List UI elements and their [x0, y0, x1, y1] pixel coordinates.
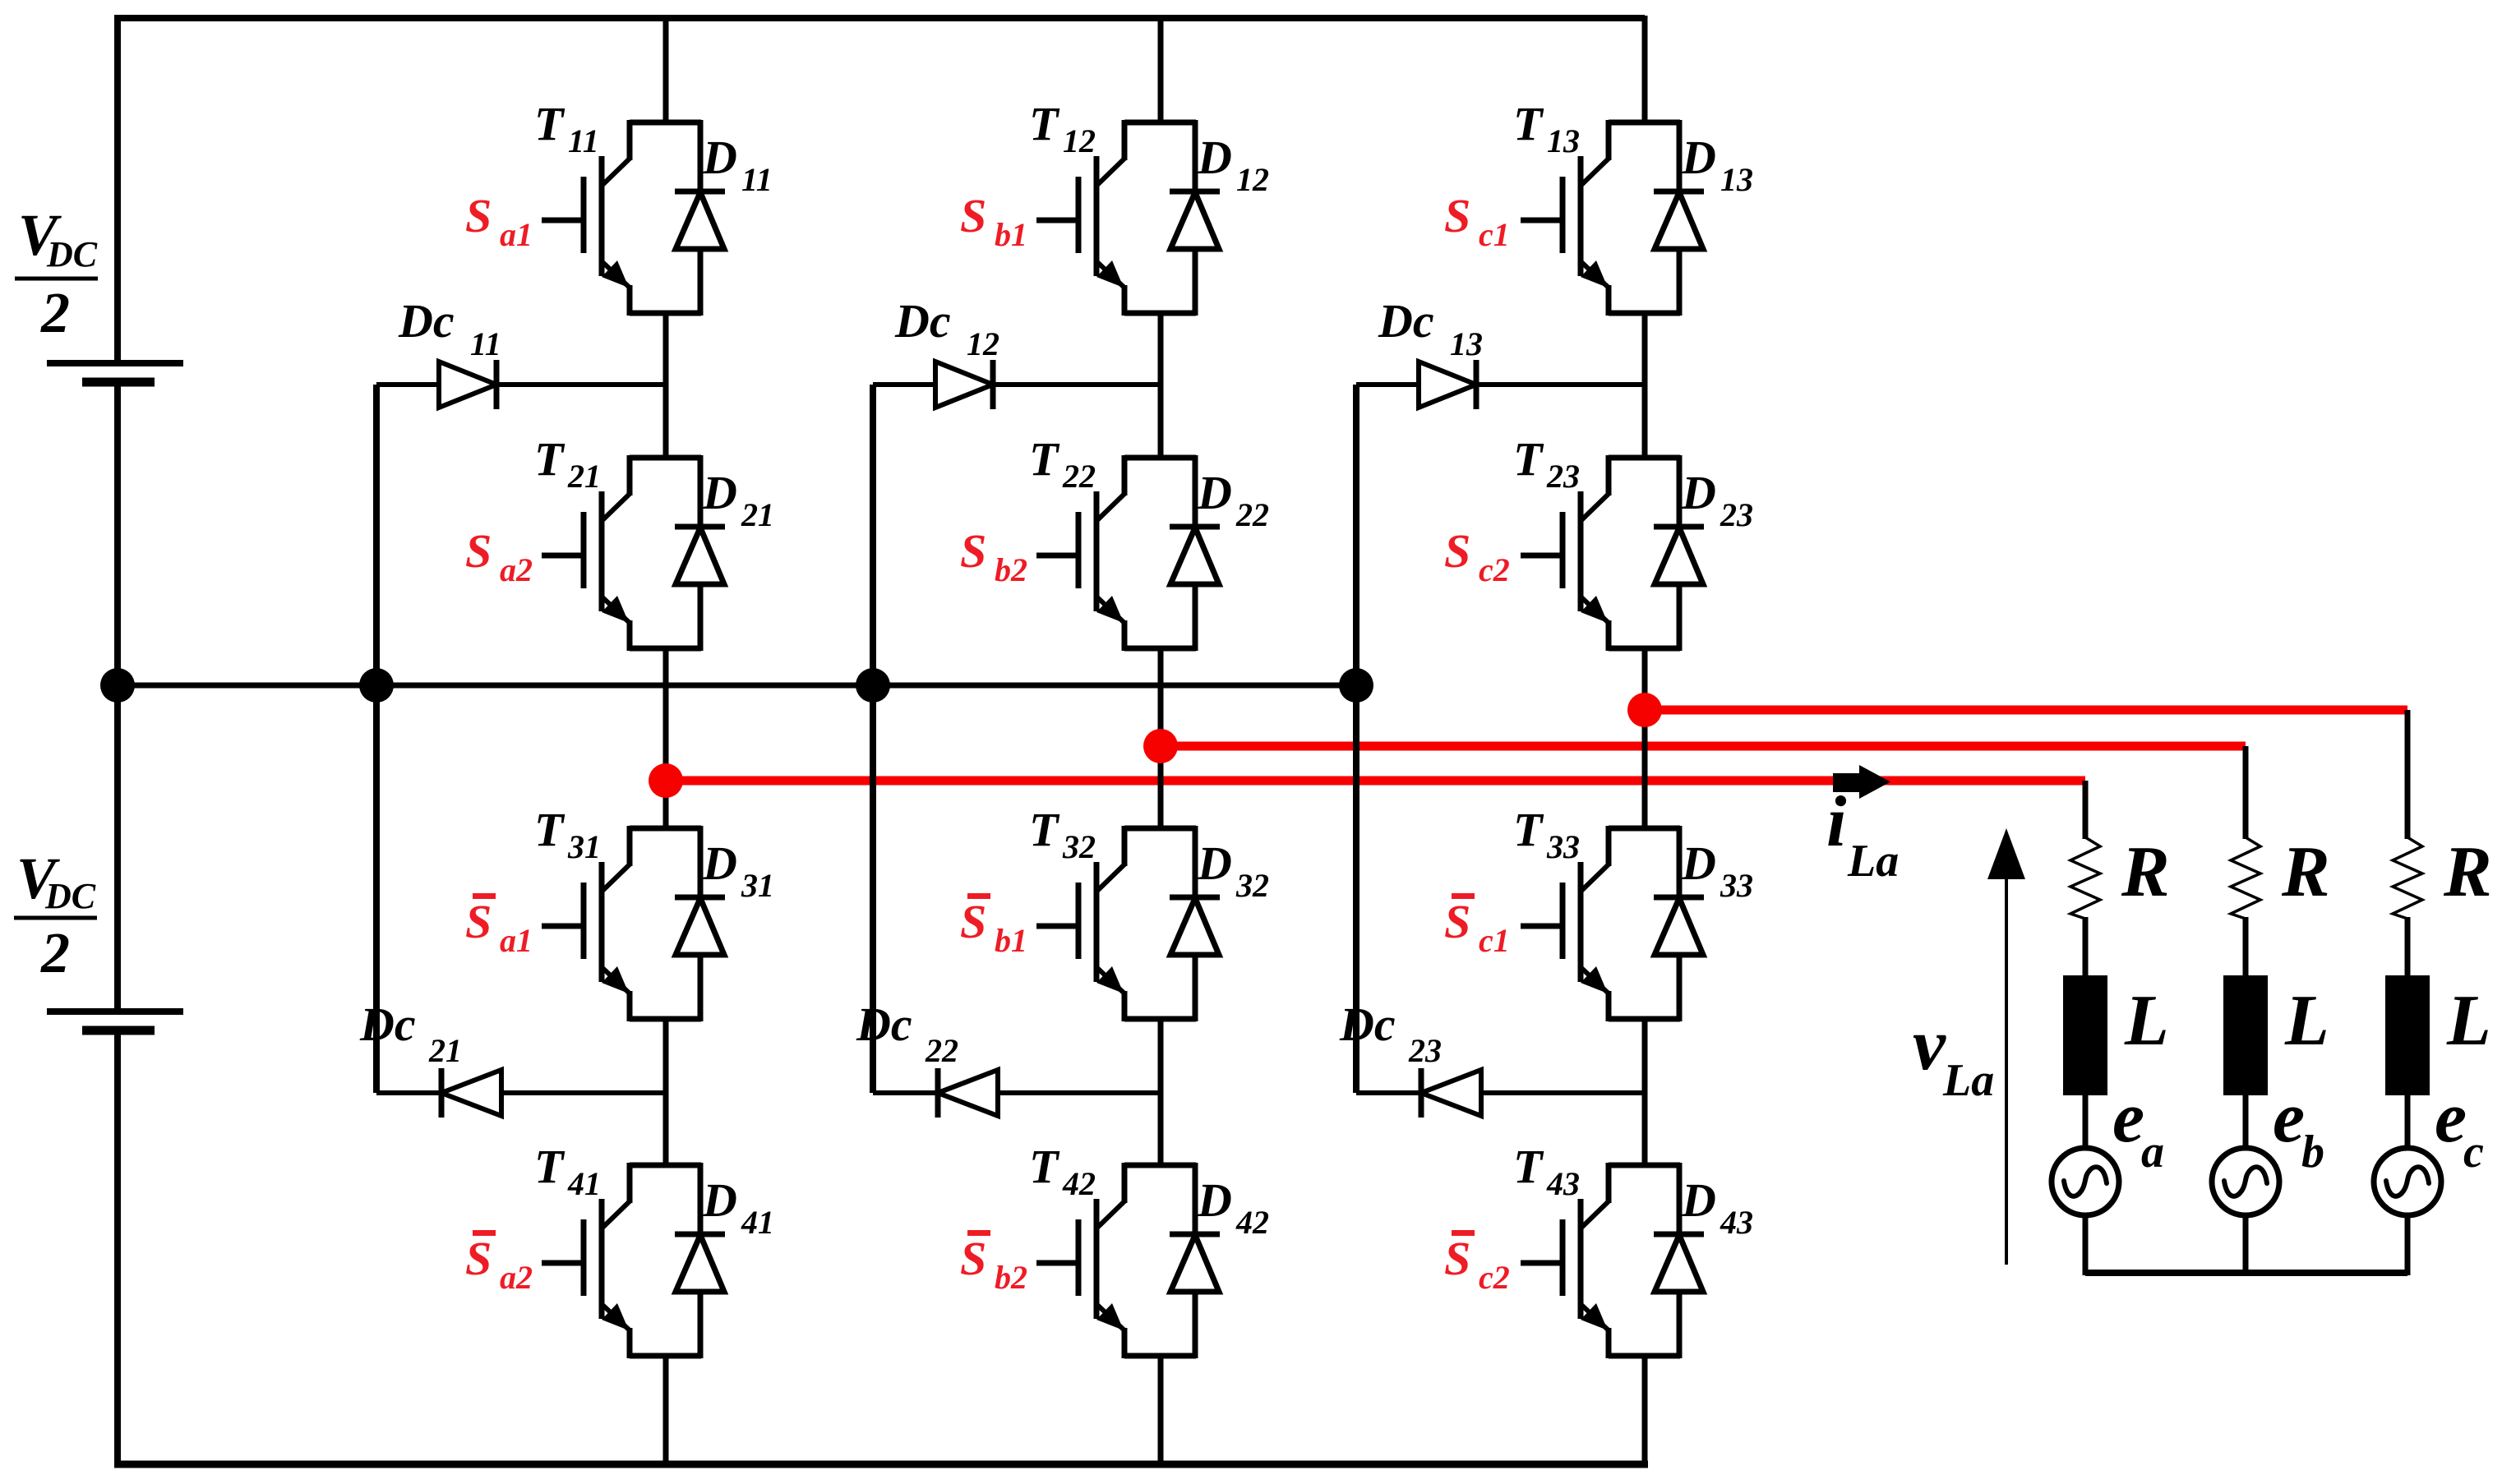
wire load branch a R-L [2083, 917, 2089, 978]
inductor L (phase b) [2223, 975, 2268, 1095]
svg-text:21: 21 [567, 458, 601, 495]
svg-text:S: S [1444, 189, 1470, 242]
diode Dc12 [935, 360, 993, 409]
resistor R (phase b) [2231, 837, 2260, 919]
svg-text:S: S [465, 1232, 492, 1285]
svg-text:T: T [1029, 1140, 1060, 1193]
label e_a [2112, 1078, 2164, 1178]
wire phase b output (red) [1161, 742, 2246, 751]
svg-text:43: 43 [1546, 1165, 1580, 1202]
transistor T43 [1521, 1163, 1680, 1358]
svg-text:32: 32 [1235, 867, 1269, 904]
svg-text:Dc: Dc [398, 294, 455, 348]
svg-text:21: 21 [741, 496, 774, 533]
wire leg b: from top bus to T1 [1158, 16, 1164, 124]
wire leg b: T2 to T3 (phase output) [1158, 647, 1164, 830]
diode D22 [1170, 455, 1220, 651]
svg-text:a: a [2141, 1127, 2164, 1178]
svg-text:c2: c2 [1479, 551, 1510, 588]
transistor T32 [1036, 826, 1196, 1021]
svg-text:D: D [1197, 131, 1232, 184]
svg-text:T: T [1513, 803, 1544, 856]
svg-text:La: La [1847, 836, 1899, 887]
svg-text:D: D [1681, 131, 1716, 184]
diode D41 [675, 1163, 725, 1358]
diode D13 [1654, 120, 1704, 316]
label D21 [702, 466, 774, 533]
wire leg b: T1 to T2 (clamp tap) [1158, 311, 1164, 459]
svg-text:22: 22 [1062, 458, 1096, 495]
diode D21 [675, 455, 725, 651]
label T12 [1029, 97, 1096, 159]
voltage source e_b [2212, 1148, 2279, 1215]
svg-text:13: 13 [1720, 161, 1753, 198]
label Dc23 [1339, 998, 1442, 1069]
svg-text:11: 11 [568, 122, 599, 159]
svg-text:33: 33 [1720, 867, 1753, 904]
label Dc22 [856, 998, 958, 1069]
diode D31 [675, 826, 725, 1021]
label Dc11 [398, 294, 501, 362]
svg-text:b2: b2 [995, 1259, 1027, 1296]
diode D12 [1170, 120, 1220, 316]
svg-text:11: 11 [470, 325, 501, 362]
svg-text:S: S [465, 189, 492, 242]
svg-text:T: T [534, 1140, 565, 1193]
label S_a2 (inverted) [465, 1230, 533, 1296]
diode D23 [1654, 455, 1704, 651]
svg-text:12: 12 [967, 325, 999, 362]
svg-text:Dc: Dc [1339, 998, 1396, 1051]
svg-text:33: 33 [1546, 828, 1580, 865]
wire load branch b top [2243, 746, 2249, 839]
svg-text:Dc: Dc [894, 294, 951, 348]
svg-text:a2: a2 [500, 551, 533, 588]
inductor L (phase c) [2385, 975, 2430, 1095]
wire leg c: T4 to bottom bus [1642, 1354, 1648, 1464]
svg-text:b1: b1 [995, 922, 1027, 959]
wire load branch a L-e [2083, 1093, 2089, 1150]
diode Dc22 [938, 1068, 998, 1118]
diode D11 [675, 120, 725, 316]
label Dc21 [359, 998, 462, 1069]
diode D33 [1654, 826, 1704, 1021]
svg-text:i: i [1826, 782, 1847, 862]
svg-text:S: S [960, 895, 986, 948]
label Dc13 [1378, 294, 1483, 362]
wire top DC bus (+) [114, 15, 1645, 21]
transistor T21 [542, 455, 701, 651]
wire load branch c L-e [2405, 1093, 2411, 1150]
label S_b2 (inverted) [960, 1230, 1027, 1296]
resistor R (phase a) [2070, 837, 2100, 919]
arrow v_La (voltage reference) [1987, 828, 2025, 1265]
transistor T23 [1521, 455, 1680, 651]
svg-text:D: D [702, 466, 737, 519]
label S_a1 [465, 189, 533, 253]
svg-text:e: e [2112, 1078, 2144, 1158]
wire left bus lower segment [114, 1030, 121, 1464]
svg-text:D: D [702, 131, 737, 184]
label D22 [1197, 466, 1269, 533]
label D32 [1197, 836, 1269, 904]
svg-text:32: 32 [1062, 828, 1096, 865]
transistor T22 [1036, 455, 1196, 651]
label S_b1 [960, 189, 1027, 253]
transistor T13 [1521, 120, 1680, 316]
label T32 [1029, 803, 1096, 865]
svg-text:T: T [1513, 97, 1544, 150]
diode Dc23 [1421, 1068, 1481, 1118]
svg-text:c1: c1 [1479, 922, 1510, 959]
label S_a1 (inverted) [465, 893, 533, 959]
svg-text:DC: DC [46, 234, 98, 274]
svg-text:T: T [534, 432, 565, 486]
svg-text:S: S [465, 524, 492, 578]
label S_c1 [1444, 189, 1510, 253]
wire lower clamp connection phase b [873, 1090, 1161, 1095]
wire load branch a bottom [2083, 1214, 2089, 1275]
wire leg a: T1 to T2 (clamp tap) [663, 311, 669, 459]
label S_b1 (inverted) [960, 893, 1027, 959]
wire load neutral bottom [2085, 1270, 2407, 1276]
svg-text:D: D [702, 836, 737, 890]
wire clamp branch vertical phase b [870, 385, 876, 1093]
svg-text:D: D [1681, 1173, 1716, 1227]
svg-text:22: 22 [1235, 496, 1269, 533]
label T42 [1029, 1140, 1096, 1202]
wire lower clamp connection phase a [376, 1090, 666, 1095]
svg-text:21: 21 [428, 1032, 462, 1069]
diode D32 [1170, 826, 1220, 1021]
svg-text:S: S [960, 189, 986, 242]
svg-text:Dc: Dc [1378, 294, 1434, 348]
diode D43 [1654, 1163, 1704, 1358]
wire clamp branch vertical phase c [1353, 385, 1359, 1093]
voltage source e_a [2052, 1148, 2119, 1215]
wire upper clamp connection phase c [1356, 382, 1645, 387]
svg-text:23: 23 [1408, 1032, 1442, 1069]
svg-text:T: T [534, 803, 565, 856]
svg-text:12: 12 [1063, 122, 1096, 159]
arrow i_La (current direction) [1833, 765, 1890, 799]
svg-text:2: 2 [40, 282, 70, 345]
wire leg a: T4 to bottom bus [663, 1354, 669, 1464]
svg-text:2: 2 [40, 922, 70, 985]
svg-text:R: R [2121, 832, 2170, 912]
svg-text:43: 43 [1720, 1204, 1753, 1241]
label V_DC/2 lower [14, 846, 97, 985]
wire leg a: from top bus to T1 [663, 16, 669, 124]
wire leg a: T3 to T4 (clamp tap) [663, 1017, 669, 1167]
diode Dc21 [441, 1068, 501, 1118]
svg-text:D: D [1197, 836, 1232, 890]
svg-text:Dc: Dc [856, 998, 912, 1051]
svg-text:D: D [702, 1173, 737, 1227]
wire lower clamp connection phase c [1356, 1090, 1645, 1095]
wire left bus upper segment [114, 18, 121, 363]
svg-text:T: T [1029, 97, 1060, 150]
diode Dc11 [439, 360, 496, 409]
wire leg b: T4 to bottom bus [1158, 1354, 1164, 1464]
transistor T33 [1521, 826, 1680, 1021]
wire clamp branch vertical phase a [373, 385, 380, 1093]
svg-text:S: S [1444, 895, 1470, 948]
label D42 [1197, 1173, 1269, 1241]
svg-text:S: S [1444, 1232, 1470, 1285]
svg-text:L: L [2284, 981, 2329, 1061]
label T11 [534, 97, 599, 159]
transistor T42 [1036, 1163, 1196, 1358]
node neutral junction phase a [359, 668, 394, 703]
label S_c2 (inverted) [1444, 1230, 1510, 1296]
battery V_DC/2 lower [47, 1012, 183, 1030]
svg-text:R: R [2281, 832, 2330, 912]
wire load branch a top [2083, 781, 2089, 839]
svg-text:12: 12 [1236, 161, 1269, 198]
label T21 [534, 432, 601, 495]
svg-text:a1: a1 [500, 922, 533, 959]
label v_La [1913, 1004, 1994, 1106]
label D13 [1681, 131, 1753, 198]
node neutral at left bus [100, 668, 135, 703]
wire load branch c R-L [2405, 917, 2411, 978]
svg-text:b: b [2301, 1127, 2324, 1178]
wire left bus middle segment [114, 385, 121, 1012]
svg-text:T: T [1029, 803, 1060, 856]
svg-text:e: e [2435, 1078, 2467, 1158]
transistor T41 [542, 1163, 701, 1358]
label T31 [534, 803, 601, 865]
label i_La [1826, 782, 1899, 887]
transistor T12 [1036, 120, 1196, 316]
svg-text:41: 41 [741, 1204, 774, 1241]
label T22 [1029, 432, 1096, 495]
wire leg c: T2 to T3 (phase output) [1642, 647, 1648, 830]
label D23 [1681, 466, 1753, 533]
node phase b output [1143, 729, 1178, 763]
svg-text:D: D [1681, 466, 1716, 519]
label T41 [534, 1140, 601, 1202]
svg-text:T: T [1029, 432, 1060, 486]
label T13 [1513, 97, 1580, 159]
svg-text:La: La [1942, 1055, 1994, 1106]
wire load branch c top [2405, 710, 2411, 839]
label S_b2 [960, 524, 1027, 588]
svg-text:13: 13 [1450, 325, 1483, 362]
svg-text:13: 13 [1547, 122, 1580, 159]
wire load branch b bottom [2243, 1214, 2249, 1275]
svg-text:L: L [2124, 981, 2169, 1061]
svg-text:31: 31 [567, 828, 601, 865]
svg-text:T: T [534, 97, 565, 150]
svg-text:42: 42 [1062, 1165, 1096, 1202]
svg-text:Dc: Dc [359, 998, 416, 1051]
label D33 [1681, 836, 1753, 904]
transistor T11 [542, 120, 701, 316]
label e_b [2273, 1078, 2324, 1178]
svg-text:31: 31 [741, 867, 774, 904]
svg-text:D: D [1197, 466, 1232, 519]
svg-text:a2: a2 [500, 1259, 533, 1296]
transistor T31 [542, 826, 701, 1021]
svg-text:D: D [1197, 1173, 1232, 1227]
label T23 [1513, 432, 1580, 495]
svg-text:R: R [2443, 832, 2492, 912]
svg-text:23: 23 [1720, 496, 1753, 533]
svg-text:T: T [1513, 1140, 1544, 1193]
svg-text:S: S [465, 895, 492, 948]
svg-text:e: e [2273, 1078, 2305, 1158]
wire phase c output (red) [1645, 706, 2407, 715]
svg-text:42: 42 [1235, 1204, 1269, 1241]
label D43 [1681, 1173, 1753, 1241]
svg-text:a1: a1 [500, 216, 533, 253]
svg-text:c: c [2463, 1127, 2484, 1178]
label S_c1 (inverted) [1444, 893, 1510, 959]
wire upper clamp connection phase a [376, 382, 666, 387]
svg-text:23: 23 [1546, 458, 1580, 495]
wire bottom DC bus (-) [114, 1461, 1648, 1468]
label D11 [702, 131, 773, 198]
inductor L (phase a) [2063, 975, 2107, 1095]
svg-text:DC: DC [44, 876, 96, 916]
svg-text:c1: c1 [1479, 216, 1510, 253]
wire leg a: T2 to T3 (phase output) [663, 647, 669, 830]
svg-text:D: D [1681, 836, 1716, 890]
svg-text:S: S [960, 1232, 986, 1285]
node phase c output [1627, 693, 1662, 727]
diode D42 [1170, 1163, 1220, 1358]
label Dc12 [894, 294, 999, 362]
svg-text:11: 11 [741, 161, 773, 198]
label D12 [1197, 131, 1269, 198]
label T33 [1513, 803, 1580, 865]
svg-text:22: 22 [925, 1032, 958, 1069]
label V_DC/2 upper [15, 202, 98, 345]
svg-text:41: 41 [567, 1165, 601, 1202]
wire phase a output (red) [666, 777, 2085, 786]
svg-text:S: S [960, 524, 986, 578]
label T43 [1513, 1140, 1580, 1202]
label D41 [702, 1173, 774, 1241]
node neutral junction phase c [1339, 668, 1373, 703]
wire leg c: T3 to T4 (clamp tap) [1642, 1017, 1648, 1167]
svg-text:S: S [1444, 524, 1470, 578]
node phase a output [649, 763, 683, 798]
wire load branch b R-L [2243, 917, 2249, 978]
wire load branch b L-e [2243, 1093, 2249, 1150]
wire upper clamp connection phase b [873, 382, 1161, 387]
svg-text:b2: b2 [995, 551, 1027, 588]
svg-text:L: L [2446, 981, 2491, 1061]
battery V_DC/2 upper [47, 363, 183, 382]
svg-text:T: T [1513, 432, 1544, 486]
svg-text:c2: c2 [1479, 1259, 1510, 1296]
wire neutral bus [118, 683, 1356, 689]
diode Dc13 [1419, 360, 1476, 409]
label e_c [2435, 1078, 2484, 1178]
wire leg c: from top bus to T1 [1642, 16, 1648, 124]
wire load branch c bottom [2405, 1214, 2411, 1275]
svg-text:v: v [1913, 1004, 1946, 1085]
node neutral junction phase b [856, 668, 890, 703]
wire leg b: T3 to T4 (clamp tap) [1158, 1017, 1164, 1167]
label S_c2 [1444, 524, 1510, 588]
label D31 [702, 836, 774, 904]
svg-text:b1: b1 [995, 216, 1027, 253]
wire leg c: T1 to T2 (clamp tap) [1642, 311, 1648, 459]
label S_a2 [465, 524, 533, 588]
resistor R (phase c) [2393, 837, 2422, 919]
voltage source e_c [2374, 1148, 2441, 1215]
